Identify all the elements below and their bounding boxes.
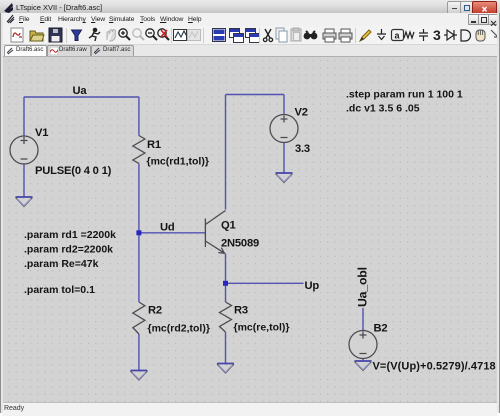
wire collector top horizontal to V2 <box>226 94 285 96</box>
resistor R1 body <box>133 136 145 164</box>
wire B2 top vertical Ua_obl <box>362 308 364 331</box>
svg-text:3.3: 3.3 <box>295 143 310 155</box>
voltage source V2 circle <box>270 115 298 143</box>
B2 minus sign <box>360 353 367 355</box>
ground below V1 <box>16 197 33 207</box>
V2 minus sign <box>281 137 288 139</box>
wire Up to R3 top <box>225 283 227 302</box>
transistor Q1 emitter diagonal with arrow <box>205 241 225 254</box>
svg-text:2N5089: 2N5089 <box>221 238 259 250</box>
V2 plus sign <box>281 116 288 123</box>
wire V1 bottom to ground <box>23 164 25 197</box>
svg-text:a: a <box>395 31 401 41</box>
svg-text:{mc(re,tol)}: {mc(re,tol)} <box>234 322 290 334</box>
svg-text:B2: B2 <box>374 323 388 335</box>
wire R3 bottom to ground <box>225 332 227 364</box>
wire node Up horizontal <box>226 282 304 284</box>
svg-text:.param rd2=2200k: .param rd2=2200k <box>24 244 113 256</box>
svg-text:R1: R1 <box>147 139 161 151</box>
svg-text:V1: V1 <box>35 127 48 139</box>
svg-text:.param tol=0.1: .param tol=0.1 <box>24 284 95 296</box>
svg-text:PULSE(0 4 0 1): PULSE(0 4 0 1) <box>35 165 112 177</box>
svg-text:Ud: Ud <box>160 222 175 234</box>
ground below R2 <box>130 371 147 381</box>
ground below R3 <box>217 364 234 374</box>
wire R1 bottom to R2 top <box>138 164 140 303</box>
svg-text:3: 3 <box>433 27 441 43</box>
voltage source V1 circle <box>10 136 38 164</box>
ground below B2 <box>355 361 372 371</box>
svg-text:Up: Up <box>305 280 320 292</box>
svg-text:.step param run 1 100 1: .step param run 1 100 1 <box>346 89 463 101</box>
wire Ud base wire to Q1 <box>139 232 206 234</box>
svg-text:R2: R2 <box>148 305 162 317</box>
wire R2 bottom to ground <box>138 334 140 371</box>
wire Q1 emitter down to node Up <box>225 254 227 283</box>
V1 minus sign <box>21 158 28 160</box>
svg-text:{mc(rd2,tol)}: {mc(rd2,tol)} <box>148 323 210 335</box>
V1 plus sign <box>21 137 28 144</box>
svg-text:V=(V(Up)+0.5279)/.4718: V=(V(Up)+0.5279)/.4718 <box>373 361 496 373</box>
B2 plus sign <box>360 332 367 339</box>
wire V1 top vertical <box>23 97 25 136</box>
wire Q1 collector vertical <box>225 95 227 210</box>
ground below V2 <box>276 173 293 183</box>
junction node Ud dot <box>136 230 141 235</box>
svg-text:.param rd1 =2200k: .param rd1 =2200k <box>24 229 116 241</box>
resistor R2 body <box>133 302 145 334</box>
svg-text:Q1: Q1 <box>221 220 236 232</box>
svg-text:R3: R3 <box>234 305 248 317</box>
junction node Up dot <box>223 281 228 286</box>
bv source B2 circle <box>349 331 377 359</box>
svg-text:.param Re=47k: .param Re=47k <box>24 258 99 270</box>
transistor Q1 base bar <box>204 219 206 248</box>
svg-text:Ua: Ua <box>73 85 88 97</box>
svg-text:.dc v1 3.5 6 .05: .dc v1 3.5 6 .05 <box>346 103 420 115</box>
svg-text:V2: V2 <box>295 107 308 119</box>
wire net Ua top horizontal <box>24 96 139 98</box>
transistor Q1 collector diagonal <box>205 211 225 225</box>
wire V2 bottom to ground <box>283 143 285 174</box>
resistor R3 body <box>220 302 232 332</box>
wire B2 bottom stub <box>362 359 364 362</box>
svg-text:{mc(rd1,tol)}: {mc(rd1,tol)} <box>147 156 209 168</box>
wire R1 top vertical <box>138 97 140 136</box>
svg-text:Ua_obl: Ua_obl <box>356 267 370 307</box>
wire V2 top vertical <box>283 95 285 115</box>
